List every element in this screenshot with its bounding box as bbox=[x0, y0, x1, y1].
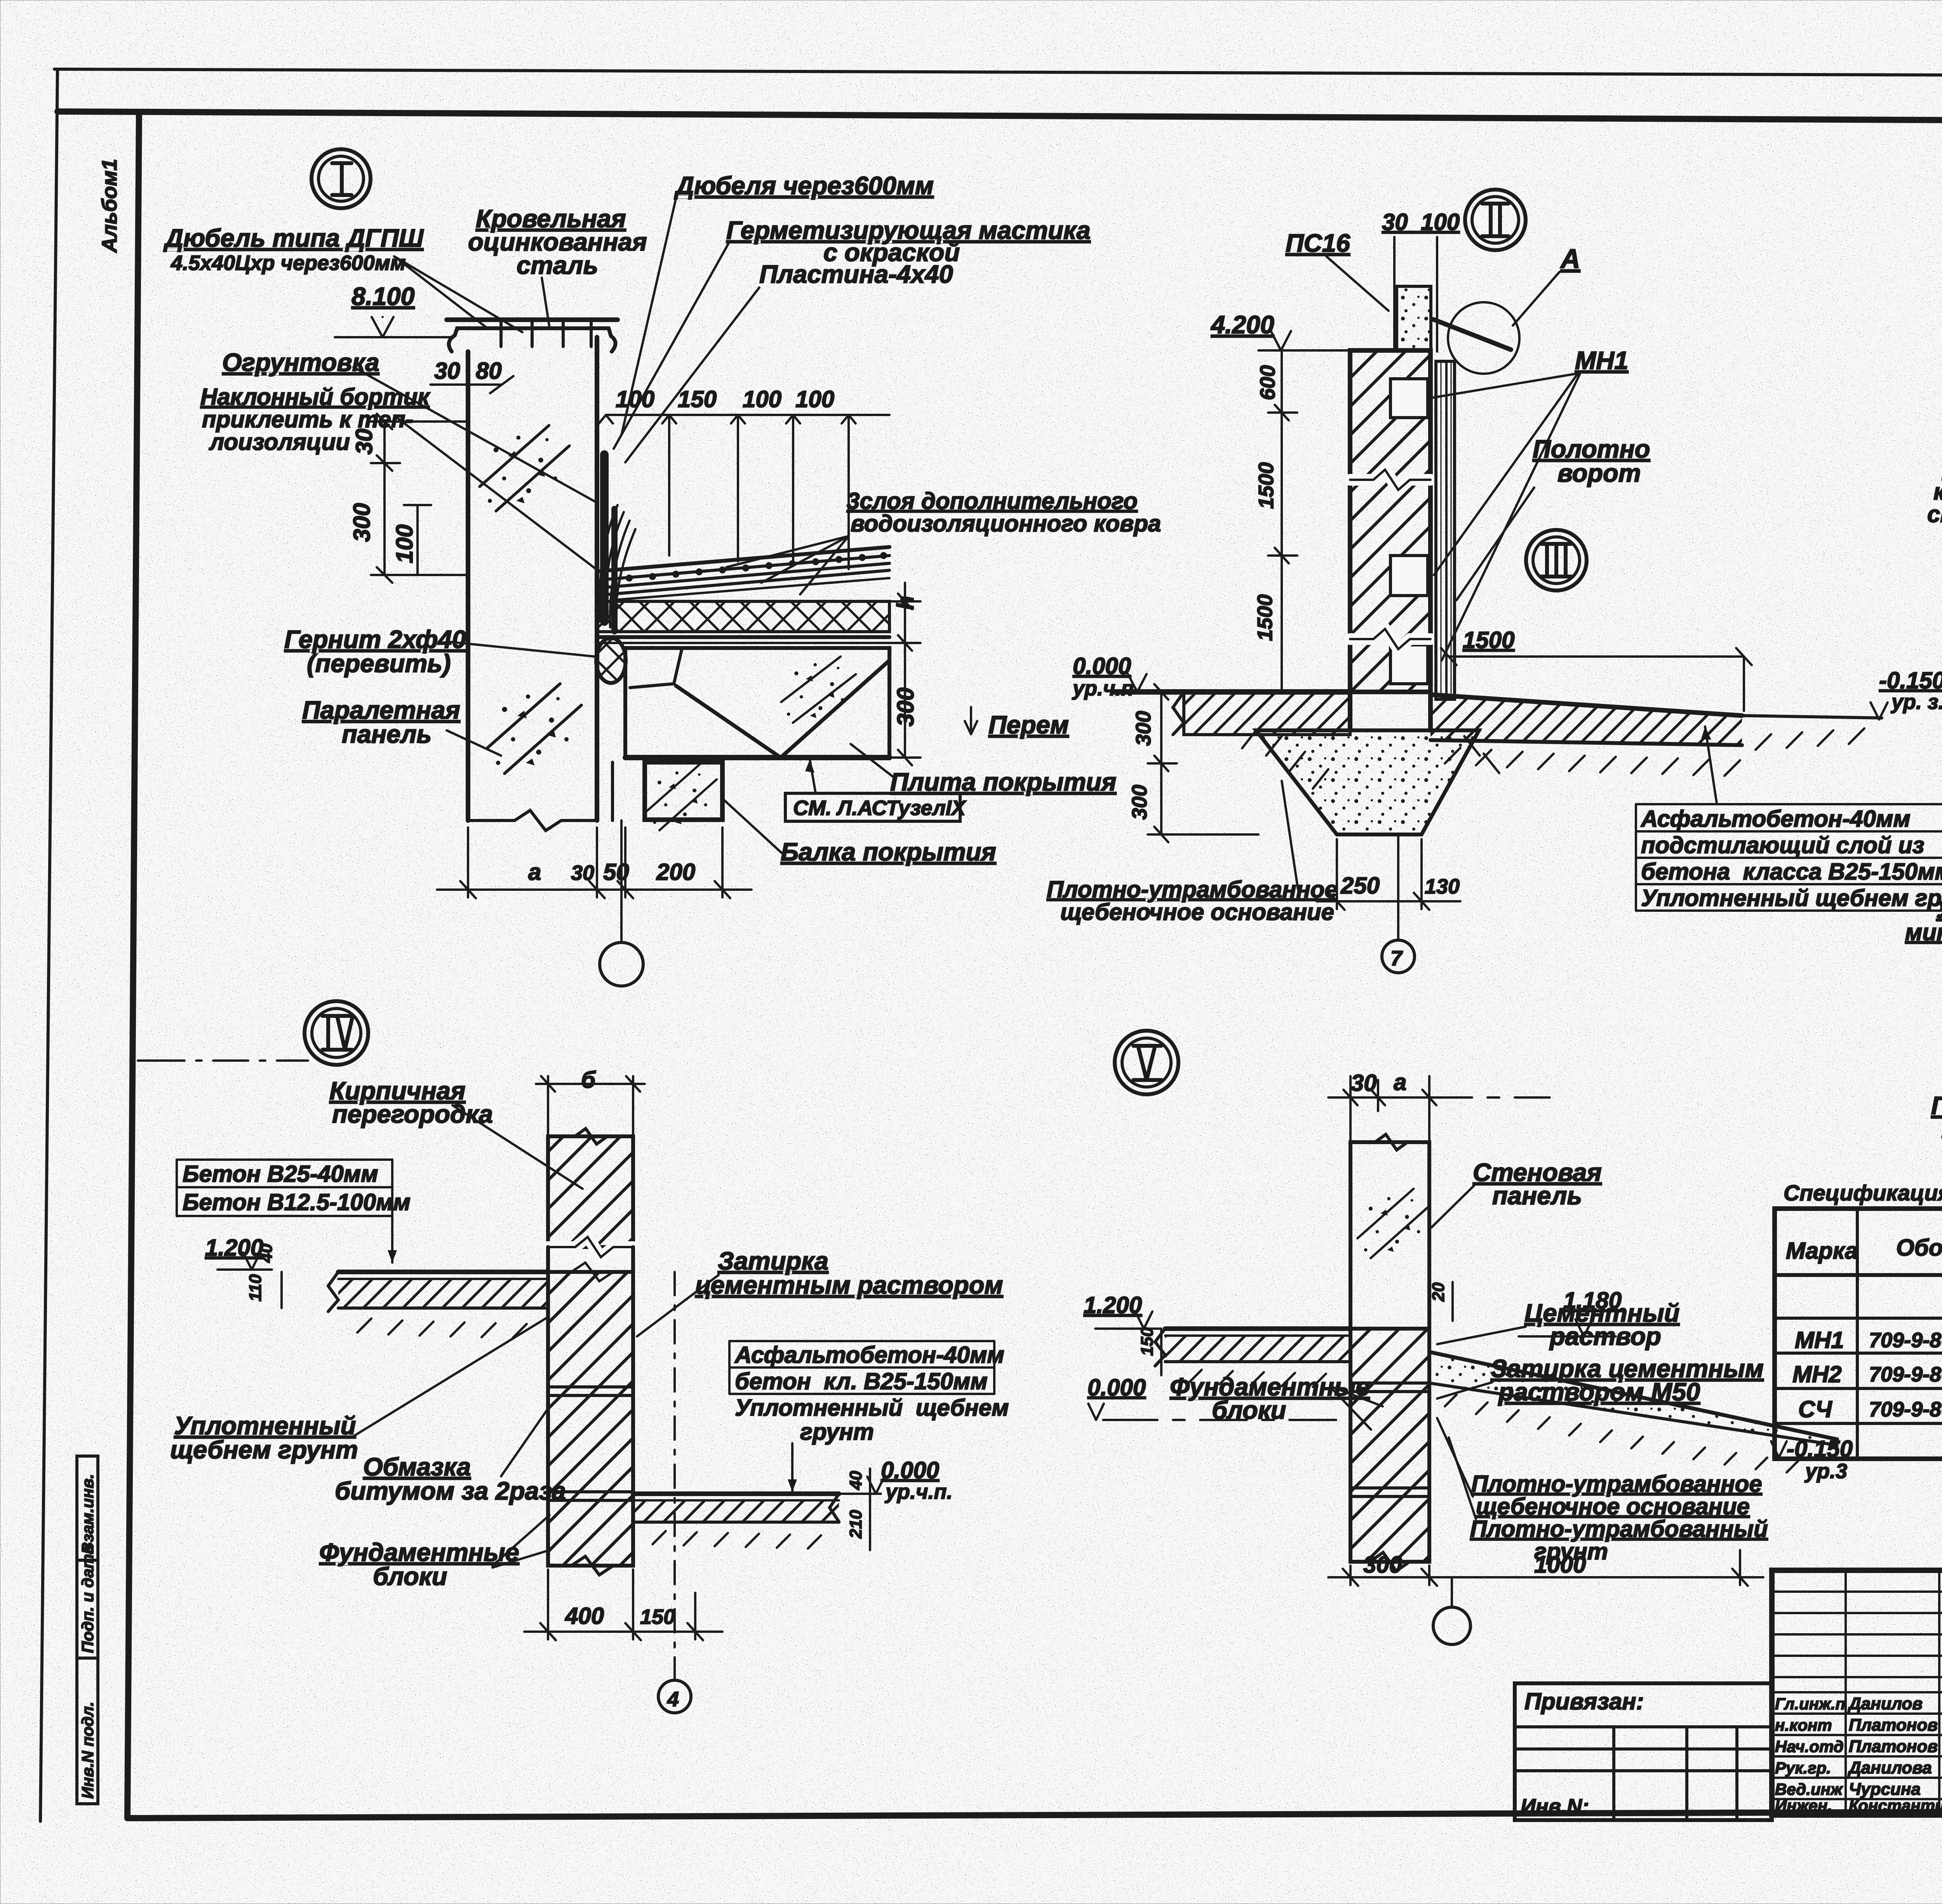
svg-text:250: 250 bbox=[1340, 873, 1380, 899]
svg-text:Привязан:: Привязан: bbox=[1524, 1688, 1644, 1714]
svg-text:битумом за 2раза: битумом за 2раза bbox=[335, 1477, 566, 1505]
svg-text:300: 300 bbox=[1128, 785, 1151, 820]
left stamp box vzam bbox=[77, 1456, 98, 1560]
svg-text:бетона класса В25-150мм: бетона класса В25-150мм bbox=[1641, 859, 1942, 885]
svg-text:100: 100 bbox=[616, 386, 654, 412]
svg-text:50: 50 bbox=[603, 859, 629, 885]
bottom dim chain a 30 50 200 bbox=[467, 827, 469, 897]
svg-text:МН1: МН1 bbox=[1575, 346, 1628, 375]
svg-text:Уплотненный щебнем: Уплотненный щебнем bbox=[735, 1395, 1009, 1421]
svg-text:б: б bbox=[581, 1067, 596, 1093]
svg-text:300: 300 bbox=[893, 688, 919, 726]
asphalt apron right of wall bbox=[1430, 695, 1742, 716]
svg-text:Константикова: Константикова bbox=[1849, 1796, 1942, 1815]
svg-text:100: 100 bbox=[392, 524, 418, 563]
svg-text:7: 7 bbox=[1390, 947, 1403, 970]
svg-text:щебнем грунт: щебнем грунт bbox=[170, 1435, 358, 1464]
svg-text:600: 600 bbox=[1256, 365, 1279, 400]
node bubble II bbox=[1465, 190, 1526, 250]
svg-text:210: 210 bbox=[846, 1510, 865, 1539]
left dim chain 600 1500 1500 bbox=[1281, 350, 1283, 692]
signature grid left bbox=[1772, 1570, 1942, 1815]
svg-text:Взам.инв.: Взам.инв. bbox=[78, 1474, 97, 1554]
parapet cap bbox=[449, 328, 616, 352]
roofing membrane upturn at wall bbox=[600, 505, 635, 630]
svg-text:709-9-80.87Ал2АСИ-2047: 709-9-80.87Ал2АСИ-2047 bbox=[1869, 1398, 1942, 1421]
brick wall upper part bbox=[548, 1136, 633, 1247]
leader from dowel label to cap bbox=[394, 256, 487, 328]
svg-text:СЧ: СЧ bbox=[1798, 1396, 1832, 1422]
svg-text:Платонов: Платонов bbox=[1849, 1716, 1938, 1735]
section bubble below detail I bbox=[620, 820, 623, 942]
svg-text:Наклонный бортик: Наклонный бортик bbox=[200, 384, 430, 410]
svg-text:Асфальтобетон-40мм: Асфальтобетон-40мм bbox=[1640, 806, 1911, 832]
svg-text:Пластина-4х40: Пластина-4х40 bbox=[759, 260, 953, 288]
svg-text:МН1: МН1 bbox=[1795, 1327, 1844, 1353]
svg-text:Плотно-утрамбованный: Плотно-утрамбованный bbox=[1470, 1516, 1768, 1542]
wall concrete patch lower bbox=[487, 684, 581, 773]
svg-text:ур.3: ур.3 bbox=[1804, 1460, 1847, 1483]
svg-text:1500: 1500 bbox=[1253, 594, 1277, 641]
asphalt wedge right of wall V bbox=[1429, 1352, 1837, 1439]
foundation wall below V bbox=[1350, 1329, 1429, 1562]
svg-text:Плита покрытия: Плита покрытия bbox=[890, 768, 1116, 796]
frame left edge bbox=[127, 112, 139, 1818]
svg-text:Инв.N подл.: Инв.N подл. bbox=[78, 1702, 97, 1799]
svg-text:4: 4 bbox=[667, 1688, 679, 1711]
dim 300 300 left of foundation bbox=[1160, 692, 1162, 834]
svg-text:Подп. и дата: Подп. и дата bbox=[78, 1545, 97, 1653]
svg-text:ворот: ворот bbox=[1557, 459, 1641, 487]
left dim chain 30 300 100 bbox=[383, 422, 386, 575]
left stamp box podp bbox=[77, 1560, 98, 1658]
svg-text:80: 80 bbox=[476, 358, 502, 384]
panel joint break marks II bbox=[1350, 470, 1430, 490]
dim 250 130 under foundation bbox=[1336, 839, 1338, 909]
main title block frame bbox=[1772, 1570, 1942, 1815]
privyazan box bbox=[1515, 1683, 1772, 1820]
svg-text:0.000: 0.000 bbox=[881, 1457, 939, 1483]
svg-text:1500: 1500 bbox=[1255, 462, 1278, 509]
svg-text:приклеить к теп-: приклеить к теп- bbox=[202, 406, 413, 432]
svg-text:1500: 1500 bbox=[1463, 627, 1514, 653]
svg-text:водоизоляционного ковра: водоизоляционного ковра bbox=[851, 510, 1161, 537]
dash-dot line left of IV bbox=[138, 1059, 308, 1062]
svg-text:Спецификация закладных издели: Спецификация закладных изделий по архите… bbox=[1784, 1181, 1942, 1205]
svg-text:4.200: 4.200 bbox=[1210, 310, 1274, 339]
right dim h / 300 bbox=[904, 583, 906, 758]
svg-text:130: 130 bbox=[1425, 875, 1460, 898]
bottom dims 300 1000 V bbox=[1349, 1566, 1352, 1585]
svg-text:Платонов: Платонов bbox=[1849, 1737, 1938, 1756]
svg-text:подстилающий слой из: подстилающий слой из bbox=[1641, 832, 1925, 858]
gravel dots on roof bbox=[626, 552, 887, 582]
svg-text:блоки: блоки bbox=[1212, 1396, 1286, 1424]
svg-text:Обоснование: Обоснование bbox=[1896, 1235, 1942, 1261]
svg-text:сталь: сталь bbox=[517, 251, 598, 279]
svg-text:Дюбеля через600мм: Дюбеля через600мм bbox=[674, 171, 934, 200]
svg-text:h: h bbox=[893, 596, 919, 610]
concrete floor labels boxed bbox=[177, 1160, 411, 1216]
wall left edge bbox=[466, 352, 470, 820]
see sheet AC box bbox=[785, 793, 960, 821]
svg-text:Данилова: Данилова bbox=[1847, 1758, 1932, 1777]
svg-text:30 100: 30 100 bbox=[1382, 209, 1460, 235]
flashing piece in circle A bbox=[1433, 319, 1511, 350]
ground hatch ticks under apron bbox=[1445, 728, 1864, 776]
svg-text:панель: панель bbox=[342, 720, 432, 748]
vapor barrier lines under insulation bbox=[597, 635, 889, 639]
svg-text:Бетон В12.5-100мм: Бетон В12.5-100мм bbox=[183, 1189, 411, 1215]
svg-text:А: А bbox=[1560, 244, 1580, 274]
svg-text:Марка: Марка bbox=[1786, 1238, 1858, 1264]
foundation wall below floor bbox=[548, 1272, 633, 1566]
left stamp box inv bbox=[77, 1658, 98, 1804]
svg-text:110: 110 bbox=[246, 1274, 265, 1301]
svg-text:бетон кл. В25-150мм: бетон кл. В25-150мм bbox=[735, 1368, 988, 1394]
section bubble 4 bbox=[673, 1272, 676, 1680]
svg-text:цементным раствором: цементным раствором bbox=[695, 1271, 1003, 1299]
sloped roofing layers bbox=[600, 547, 889, 571]
svg-text:к закладной: к закладной bbox=[1933, 479, 1942, 505]
svg-text:30: 30 bbox=[571, 861, 594, 885]
svg-text:ПС16: ПС16 bbox=[1286, 229, 1350, 257]
frame bottom line bbox=[127, 1810, 1942, 1818]
svg-text:0.000: 0.000 bbox=[1088, 1374, 1146, 1401]
svg-text:а: а bbox=[1394, 1069, 1406, 1095]
svg-text:Чурсина: Чурсина bbox=[1849, 1780, 1921, 1799]
svg-text:(перевить): (перевить) bbox=[307, 649, 451, 678]
svg-text:709-9-80.87Ал2АСИ-0034: 709-9-80.87Ал2АСИ-0034 bbox=[1869, 1329, 1942, 1352]
svg-text:100: 100 bbox=[795, 386, 834, 412]
section bubble 7 bbox=[1397, 834, 1399, 940]
left floor hatched band bbox=[1184, 692, 1350, 735]
svg-text:40: 40 bbox=[846, 1471, 865, 1490]
svg-text:минеральная вата: минеральная вата bbox=[1905, 919, 1942, 945]
svg-text:8.100: 8.100 bbox=[352, 282, 415, 310]
wall panel hatched bbox=[1350, 350, 1430, 692]
break in wall at floor level bbox=[548, 1263, 633, 1281]
frame top line bbox=[57, 111, 1942, 123]
svg-text:Перем: Перем bbox=[988, 711, 1069, 739]
section bubble below V bbox=[1451, 1577, 1453, 1606]
svg-text:Асфальтобетон-40мм: Асфальтобетон-40мм bbox=[734, 1342, 1004, 1368]
svg-text:Плотно-утрамбованное: Плотно-утрамбованное bbox=[1471, 1471, 1762, 1497]
svg-text:100: 100 bbox=[743, 386, 781, 412]
svg-text:ур. з.: ур. з. bbox=[1890, 690, 1942, 714]
svg-text:Инжен.: Инжен. bbox=[1775, 1796, 1832, 1815]
svg-text:-0.150: -0.150 bbox=[1879, 667, 1942, 693]
svg-text:Уплотненный щебнем грунт: Уплотненный щебнем грунт bbox=[1641, 885, 1942, 911]
wall bottom break bbox=[468, 810, 597, 831]
foundation below wall bbox=[1348, 692, 1352, 730]
roof slab plate bbox=[625, 648, 889, 758]
bottom dim 400 150 bbox=[547, 1570, 549, 1639]
svg-text:709-9-80.87Ал2АСИ-0033: 709-9-80.87Ал2АСИ-0033 bbox=[1869, 1363, 1942, 1386]
ground line left of wall bbox=[1115, 689, 1350, 695]
wall inner face line below slab bbox=[611, 762, 614, 820]
node bubble V bbox=[1115, 1031, 1178, 1094]
svg-text:стеновой панели: стеновой панели bbox=[1927, 501, 1942, 527]
node bubble I bbox=[311, 149, 371, 208]
svg-text:Данилов: Данилов bbox=[1847, 1694, 1923, 1713]
svg-text:150: 150 bbox=[640, 1605, 675, 1629]
embed notches MN1 bbox=[1390, 379, 1428, 418]
svg-text:грунт: грунт bbox=[800, 1419, 874, 1445]
svg-text:ур.ч.п.: ур.ч.п. bbox=[884, 1480, 953, 1503]
svg-text:40: 40 bbox=[257, 1244, 276, 1263]
svg-text:Утеплитель: Утеплитель bbox=[1936, 897, 1942, 923]
svg-text:перегородка: перегородка bbox=[332, 1100, 493, 1128]
svg-text:150: 150 bbox=[678, 386, 717, 412]
svg-text:Плотно-утрамбованное: Плотно-утрамбованное bbox=[1047, 876, 1338, 902]
svg-text:панель: панель bbox=[1492, 1181, 1582, 1210]
svg-text:0.000: 0.000 bbox=[1073, 653, 1131, 679]
svg-text:щебеночное основание: щебеночное основание bbox=[1060, 899, 1334, 925]
svg-text:4.5х40Цхр через600мм: 4.5х40Цхр через600мм bbox=[171, 251, 406, 275]
svg-text:щебеночное основание: щебеночное основание bbox=[1476, 1493, 1750, 1519]
dark membrane mass at wall junction bbox=[600, 455, 609, 622]
wall panel V bbox=[1350, 1142, 1429, 1329]
svg-text:3слоя дополнительного: 3слоя дополнительного bbox=[847, 488, 1138, 514]
svg-text:Дюбель типа ДГПШ: Дюбель типа ДГПШ bbox=[163, 224, 424, 252]
svg-text:Огрунтовка: Огрунтовка bbox=[222, 348, 379, 376]
gate leaf strip right of wall bbox=[1436, 361, 1455, 699]
outer top border line bbox=[54, 69, 1942, 77]
svg-text:300: 300 bbox=[1132, 711, 1155, 746]
svg-text:30: 30 bbox=[351, 429, 377, 455]
left outer border bbox=[40, 69, 57, 1821]
table grid bbox=[1775, 1209, 1942, 1459]
node bubble III bbox=[1526, 530, 1587, 591]
svg-text:раствор: раствор bbox=[1549, 1322, 1661, 1350]
svg-text:блоки: блоки bbox=[373, 1562, 447, 1590]
svg-text:Инв.N:: Инв.N: bbox=[1521, 1795, 1589, 1818]
svg-text:н.конт: н.конт bbox=[1775, 1716, 1832, 1734]
svg-text:МН2: МН2 bbox=[1792, 1361, 1842, 1387]
slab bottom heavy line bbox=[625, 755, 889, 760]
beam below slab bbox=[645, 762, 722, 820]
gernit rope at wall bbox=[596, 638, 626, 683]
wall right edge bbox=[595, 337, 599, 497]
svg-text:400: 400 bbox=[565, 1603, 604, 1629]
svg-text:Рук.гр.: Рук.гр. bbox=[1775, 1759, 1831, 1777]
right floor slab lower level bbox=[633, 1491, 839, 1496]
leader roofing steel bbox=[542, 278, 550, 328]
svg-text:Альбом1: Альбом1 bbox=[98, 159, 121, 253]
svg-text:20: 20 bbox=[1429, 1282, 1448, 1302]
svg-text:1000: 1000 bbox=[1534, 1552, 1586, 1578]
node bubble IV bbox=[305, 1001, 368, 1065]
insulation crosshatch band bbox=[597, 601, 889, 632]
svg-text:1.200: 1.200 bbox=[205, 1235, 263, 1261]
wall concrete patch upper bbox=[480, 425, 569, 511]
svg-text:Бетон В25-40мм: Бетон В25-40мм bbox=[183, 1161, 378, 1187]
svg-text:Балка покрытия: Балка покрытия bbox=[781, 838, 996, 866]
svg-text:СМ. Л.АСТузелIX: СМ. Л.АСТузелIX bbox=[793, 796, 967, 820]
svg-text:Вед.инж: Вед.инж bbox=[1775, 1780, 1843, 1798]
left floor slab V bbox=[1165, 1326, 1350, 1331]
svg-text:1.200: 1.200 bbox=[1084, 1292, 1142, 1318]
svg-text:а: а bbox=[528, 859, 541, 885]
svg-text:300: 300 bbox=[349, 503, 375, 542]
asphalt spec box right bbox=[1636, 804, 1942, 911]
left floor slab band bbox=[338, 1270, 548, 1274]
svg-text:Полотно: Полотно bbox=[1931, 1091, 1942, 1120]
parapet strip above wall bbox=[1397, 286, 1431, 350]
svg-text:200: 200 bbox=[656, 859, 695, 885]
svg-text:Нач.отд: Нач.отд bbox=[1775, 1737, 1844, 1756]
cap ticks bbox=[499, 320, 503, 347]
svg-text:Гл.инж.п: Гл.инж.п bbox=[1775, 1695, 1845, 1713]
svg-text:лоизоляции: лоизоляции bbox=[209, 429, 350, 455]
asphalt spec box right IV bbox=[729, 1341, 1009, 1445]
svg-text:ур.ч.п: ур.ч.п bbox=[1072, 677, 1134, 700]
svg-text:30: 30 bbox=[434, 358, 460, 384]
foundation trapezoid bbox=[1256, 730, 1479, 834]
svg-text:300: 300 bbox=[1363, 1552, 1402, 1578]
